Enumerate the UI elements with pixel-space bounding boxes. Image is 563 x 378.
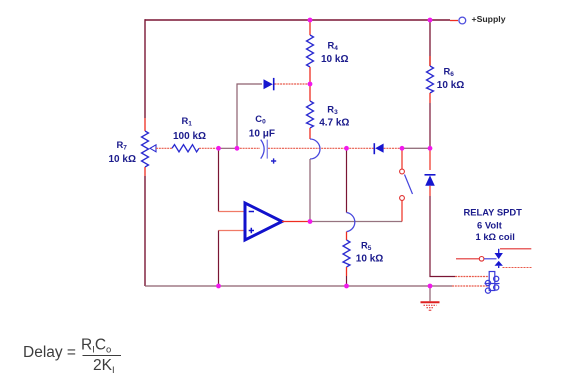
wire R1 to node A [199, 147, 216, 149]
wire bottom rail to coil bottom terminal [430, 285, 452, 287]
wire left rail lower [144, 176, 146, 286]
potentiometer R7 body [142, 131, 149, 167]
diode D1 [264, 78, 274, 90]
wire noninverting input lead [219, 230, 246, 232]
relay NO contact [495, 261, 503, 268]
wire C0 to hop [268, 147, 347, 149]
svg-text:Delay =: Delay = [23, 344, 76, 361]
wire node A down to inverting input [218, 148, 220, 211]
node dot top R4 [308, 18, 313, 23]
svg-text:10 kΩ: 10 kΩ [356, 254, 383, 265]
wire op-amp output lead [282, 221, 310, 223]
node dot R4-R3 junction [308, 82, 313, 87]
wire R3 to hop [309, 128, 311, 139]
wire R6 to mid node [429, 103, 431, 148]
wire corner to coil top terminal [455, 276, 489, 278]
svg-text:10 kΩ: 10 kΩ [321, 54, 348, 65]
node dot mid R6 [428, 146, 433, 151]
svg-text:10 μF: 10 μF [249, 129, 275, 140]
capacitor C0 curved plate [261, 140, 264, 159]
wire node B up to diode branch [237, 84, 262, 148]
node dot bottom ground [428, 284, 433, 289]
wire R6 bottom lead [429, 93, 431, 103]
wire inverting input lead [219, 211, 246, 213]
wire D3 to coil corner [430, 196, 455, 277]
wire R5 top lead [346, 232, 348, 240]
svg-text:4.7 kΩ: 4.7 kΩ [319, 117, 349, 128]
wire left rail upper [144, 19, 146, 118]
wire R6 upper red lead [429, 56, 431, 66]
diode D2 [374, 143, 383, 154]
diode D3 [425, 175, 436, 186]
node dot mid R5 [344, 146, 349, 151]
wire relay NO lead [503, 267, 532, 269]
wire output run to switch [310, 221, 402, 223]
capacitor C0 straight plate [266, 140, 268, 159]
formula Delay [23, 337, 121, 377]
wire D1 to R4-R3 junction [275, 83, 311, 85]
wire R6 top lead [429, 20, 431, 66]
resistor R5 body [343, 240, 350, 267]
wire node A to node B [216, 147, 237, 149]
svg-text:+Supply: +Supply [472, 14, 506, 24]
wire R5 to bottom rail [346, 276, 348, 286]
node dot bottom plus input [216, 284, 221, 289]
wire relay NC lead [500, 248, 531, 250]
switch S1 top contact [400, 169, 405, 174]
wire hop over mid wire [310, 139, 320, 159]
wire supply stub [450, 20, 458, 22]
wire hop over output run [347, 213, 355, 232]
svg-text:6 Volt: 6 Volt [477, 220, 502, 231]
wire mid node to D3 [429, 148, 431, 170]
node dot bottom R5 [344, 284, 349, 289]
wire wiper to R1 [156, 147, 172, 149]
wire R3 top lead [309, 84, 311, 101]
ground [421, 302, 440, 310]
resistor R4 body [307, 35, 314, 67]
resistor R3 body [307, 101, 314, 128]
wire mid node to D2 [347, 147, 375, 149]
switch S1 bottom contact [400, 196, 405, 201]
wire D3 bottom lead [429, 186, 431, 196]
svg-text:1 kΩ coil: 1 kΩ coil [476, 231, 515, 242]
svg-text:10 kΩ: 10 kΩ [109, 154, 136, 165]
node dot B [235, 146, 240, 151]
wire R5 bottom lead [346, 267, 348, 276]
wire switch top lead [401, 148, 403, 169]
wire hop to output node [309, 159, 311, 222]
svg-text:RELAY SPDT: RELAY SPDT [464, 206, 523, 217]
resistor R6 body [427, 66, 434, 93]
node dot top R6 [428, 18, 433, 23]
wire switch node to R6 node [402, 147, 430, 149]
node dot output [308, 219, 313, 224]
relay common terminal circle [479, 257, 484, 262]
node dot switch top [400, 146, 405, 151]
svg-text:10 kΩ: 10 kΩ [437, 80, 464, 91]
potentiometer R7 wiper arrow [150, 145, 156, 152]
capacitor C0 plus mark [271, 158, 276, 163]
node dot A [216, 146, 221, 151]
svg-text:100 kΩ: 100 kΩ [173, 131, 206, 142]
wire node B to C0 [237, 147, 260, 149]
resistor R1 body [172, 145, 199, 152]
wire ground stub [429, 286, 431, 301]
wire relay common lead [456, 258, 479, 260]
wire D2 to switch node [384, 147, 402, 149]
wire bottom rail [145, 285, 430, 287]
wire R4 bottom lead [309, 67, 311, 84]
svg-text:2KI: 2KI [93, 357, 115, 376]
wire R4 top lead [309, 20, 311, 35]
wire R7 bottom lead [144, 167, 146, 176]
op-amp U1 [245, 203, 282, 240]
relay NC contact [495, 249, 503, 259]
wire top rail [145, 19, 450, 21]
wire switch bottom lead [401, 201, 403, 222]
wire R7 top lead [144, 118, 146, 131]
wire noninverting input down to ground rail [218, 231, 220, 287]
terminal +Supply circle [459, 17, 466, 24]
wire mid node to R5 hop [346, 148, 348, 212]
switch S1 lever [405, 175, 413, 195]
relay coil K1 [485, 272, 500, 294]
relay lever [484, 258, 497, 260]
